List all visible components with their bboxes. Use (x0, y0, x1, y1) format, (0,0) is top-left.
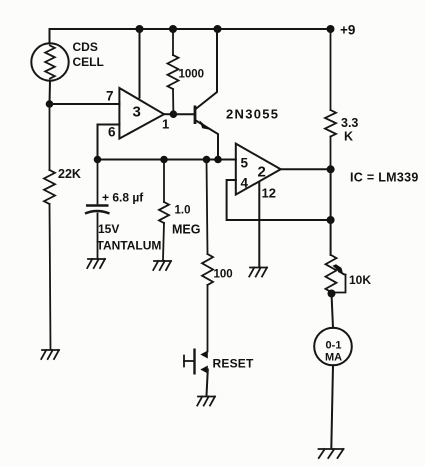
node output / 3.3K (327, 165, 335, 173)
resistor R2 1000 (168, 29, 179, 114)
svg-text:1: 1 (162, 117, 169, 132)
svg-text:15V: 15V (98, 222, 119, 236)
node rail junction for 1000-ohm resistor (169, 25, 177, 33)
wire CDS cell to node A (49, 81, 52, 104)
svg-text:MA: MA (325, 352, 342, 364)
ground under capacitor (87, 259, 105, 268)
svg-text:IC = LM339: IC = LM339 (350, 171, 419, 185)
resistor R4 100 (202, 160, 213, 352)
resistor R5 3.3K (325, 29, 336, 169)
op-amp U1b (pin2) comparator (236, 144, 281, 195)
svg-text:4: 4 (241, 176, 249, 191)
node rail junction for Q1 collector (214, 25, 222, 33)
svg-text:+ 6.8 µf: + 6.8 µf (102, 191, 144, 205)
node pot wiper junction (328, 290, 336, 298)
label 3.3 K (341, 116, 358, 144)
svg-text:+9: +9 (340, 23, 355, 38)
node feedback junction (327, 216, 335, 224)
svg-text:0-1: 0-1 (326, 340, 342, 352)
node rail junction for op-amp supply (136, 25, 144, 33)
svg-text:K: K (344, 130, 353, 144)
svg-text:RESET: RESET (213, 357, 254, 371)
svg-text:3: 3 (133, 104, 141, 121)
svg-text:100: 100 (214, 269, 233, 281)
node bus / pin6 / capacitor (94, 156, 102, 164)
wire inverting-input bus (98, 159, 236, 161)
svg-text:MEG: MEG (172, 223, 200, 237)
svg-text:TANTALUM: TANTALUM (97, 239, 162, 253)
svg-text:2N3055: 2N3055 (226, 107, 279, 122)
svg-text:CDS: CDS (73, 40, 98, 54)
svg-text:10K: 10K (349, 273, 371, 287)
photocell CDS cell (31, 43, 68, 80)
wire base of Q1 (173, 113, 195, 115)
potentiometer R6 10K (rheostat) (326, 255, 346, 293)
wire op-amp2 output (281, 168, 331, 170)
svg-text:2: 2 (258, 164, 266, 181)
label CDS CELL (73, 40, 104, 69)
node A (CDS / 22K / pin 7) (46, 100, 54, 108)
ground under meter (319, 449, 344, 458)
svg-text:12: 12 (262, 186, 276, 201)
wire node A to op-amp pin 7 (50, 103, 120, 105)
node bus / 1.0 MEG (160, 156, 168, 164)
wire op-amp output (164, 113, 173, 115)
wire pin 4 feedback (227, 180, 331, 220)
ground under 1.0 MEG (153, 261, 171, 270)
wire meter to ground (331, 365, 333, 448)
resistor R1 22K (44, 104, 55, 350)
svg-text:5: 5 (241, 156, 249, 171)
wire op-amp supply to rail (139, 29, 141, 98)
wire RESET to ground (207, 370, 208, 396)
ground under pin 12 (249, 268, 267, 277)
wire pot to meter (332, 294, 334, 328)
resistor R3 1.0 MEG (159, 160, 169, 261)
meter M1 0-1 MA (314, 328, 352, 366)
ground under 22K (41, 350, 59, 359)
svg-text:1000: 1000 (179, 69, 205, 81)
svg-text:1.0: 1.0 (175, 205, 191, 217)
node bus / emitter (214, 156, 222, 164)
wire CDS cell to rail (49, 29, 51, 44)
wire pin 12 to ground (258, 182, 260, 267)
wire right column to 10K pot (330, 169, 332, 255)
node bus / 100 ohm (203, 156, 211, 164)
svg-text:22K: 22K (58, 167, 81, 181)
pushbutton RESET (184, 349, 208, 375)
node op-amp1 output / 1000 / base (170, 110, 178, 118)
capacitor C1 6.8uF tantalum (85, 160, 110, 258)
ground under RESET (197, 397, 215, 406)
wire +9 supply rail (50, 28, 331, 30)
op-amp U1a (pin3) (119, 88, 164, 139)
node +9 terminal (327, 25, 335, 33)
svg-text:CELL: CELL (73, 55, 104, 69)
transistor Q1 2N3055 (195, 29, 218, 160)
svg-text:7: 7 (106, 89, 114, 104)
svg-text:3.3: 3.3 (341, 116, 358, 130)
svg-text:6: 6 (108, 125, 116, 140)
wire pin 6 input (98, 125, 120, 160)
